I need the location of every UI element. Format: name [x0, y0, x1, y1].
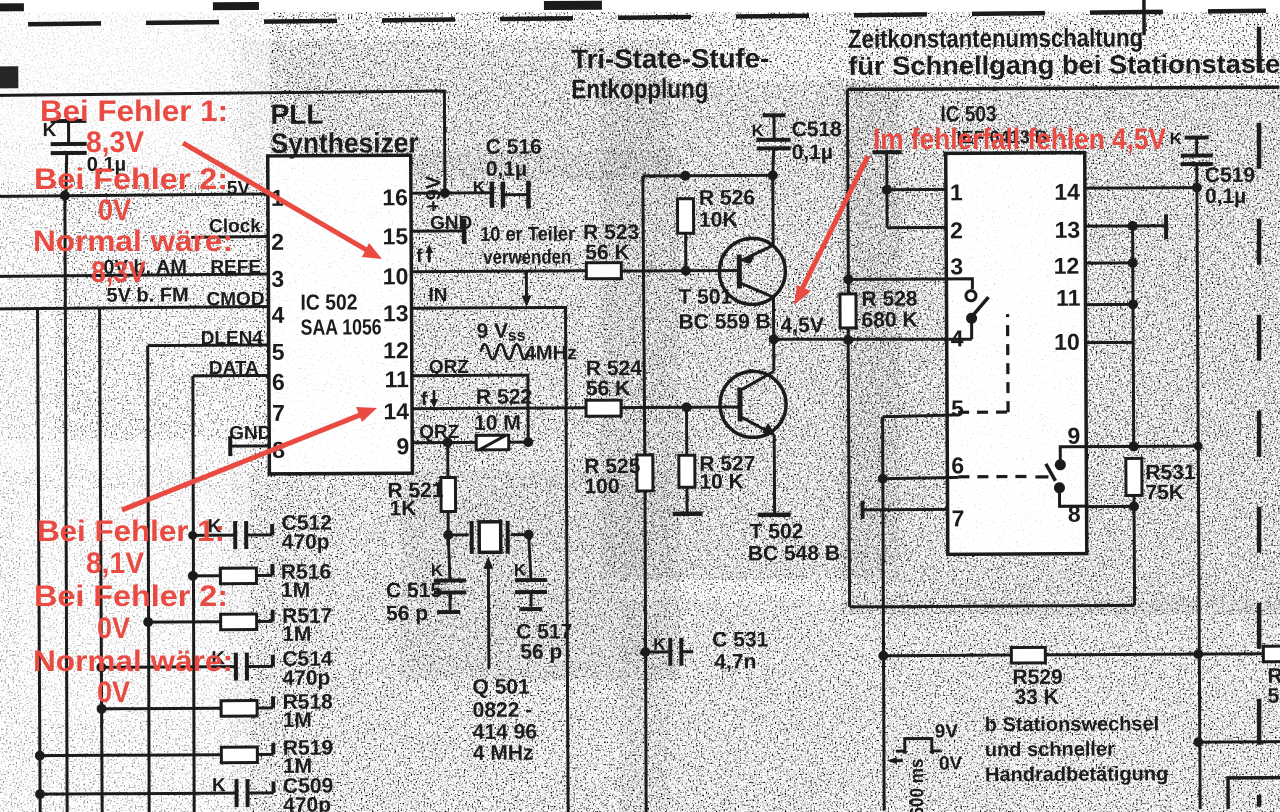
arrow Q501 pointer: [483, 557, 494, 669]
ladder row C509: [35, 779, 274, 808]
capacitor C516: [492, 181, 529, 209]
junction R522/pin11 column: [523, 437, 533, 447]
svg-text:C 531: C 531: [712, 628, 768, 651]
svg-text:BC 548 B: BC 548 B: [748, 542, 840, 565]
svg-text:Entkopplung: Entkopplung: [571, 74, 708, 105]
right dashed page border: [1255, 27, 1263, 807]
junction pin1: [882, 185, 892, 195]
junction pin6 column: [878, 474, 888, 484]
svg-text:10 K: 10 K: [699, 470, 743, 493]
svg-text:Handradbetätigung: Handradbetätigung: [985, 763, 1168, 786]
wire IC502 pin1 5V: [0, 194, 268, 196]
red arrow to pin10: [183, 143, 382, 259]
svg-text:1: 1: [950, 179, 963, 205]
switch contact moving (pin4): [966, 313, 977, 324]
svg-text:680 K: 680 K: [862, 309, 918, 332]
bus line 5: [192, 376, 195, 812]
wire IC502 pin3 REFE: [0, 274, 268, 276]
svg-text:8,1V: 8,1V: [86, 547, 144, 580]
capacitor C531: [645, 638, 693, 666]
IC503 pin numbers left: [950, 179, 965, 531]
section frame Zeitkonstanten top edge: [847, 87, 1279, 89]
IC503 body (white): [947, 155, 1086, 556]
resistor R528: [840, 294, 858, 607]
wire IC503 pin7: [863, 508, 948, 511]
wire +9V rail to C518: [643, 174, 773, 178]
svg-text:4,5V: 4,5V: [781, 314, 824, 337]
svg-text:IC 502: IC 502: [300, 289, 357, 314]
junction 5V bus2: [60, 190, 70, 200]
svg-text:f: f: [416, 246, 423, 267]
ladder row C514: [96, 652, 273, 681]
bus column pin5/pin6: [882, 417, 885, 811]
svg-text:1M: 1M: [281, 579, 310, 602]
ladder resistor R518: [97, 696, 274, 716]
svg-text:K: K: [514, 561, 527, 580]
switch S2 lever: [1046, 464, 1056, 481]
dashed linkage S2 to pin6: [958, 475, 1033, 479]
svg-text:9V: 9V: [935, 721, 959, 742]
resistor R526: [677, 199, 693, 271]
switch S2 lever tick: [1035, 475, 1048, 478]
svg-text:470p: 470p: [283, 794, 331, 812]
svg-text:12: 12: [383, 337, 409, 363]
svg-text:PLL: PLL: [270, 99, 323, 130]
dashed linkage S1 to pin5: [958, 314, 1009, 412]
junction pin13 tie: [1128, 221, 1138, 231]
bus line 1: [38, 309, 41, 812]
svg-text:Normal wäre:: Normal wäre:: [33, 645, 233, 678]
svg-text:1M: 1M: [282, 623, 311, 646]
arrow stub divider note: [521, 272, 531, 307]
svg-text:C518: C518: [792, 118, 843, 141]
tie column pins13-10-9: [1133, 226, 1134, 446]
svg-text:K: K: [212, 775, 226, 796]
wire R524 to T502 base: [621, 405, 740, 409]
capacitor C515: [434, 535, 466, 612]
svg-text:R 526: R 526: [699, 186, 755, 209]
wire bottom row: [1198, 740, 1280, 743]
svg-text:600 ms: 600 ms: [907, 758, 928, 812]
wire R523 to T501 base: [621, 269, 739, 273]
svg-text:11: 11: [384, 366, 409, 392]
red annotations layer: [33, 95, 1166, 709]
svg-text:0,1µ: 0,1µ: [1205, 185, 1246, 208]
junction pin9/R521: [443, 437, 453, 447]
svg-text:12: 12: [1054, 253, 1080, 279]
junction T501 base / R526: [681, 266, 691, 276]
svg-text:7: 7: [272, 400, 285, 426]
svg-text:56 p: 56 p: [520, 640, 562, 663]
svg-text:6: 6: [951, 452, 964, 478]
red arrow to 4,5V: [794, 156, 868, 305]
svg-text:8,3V: 8,3V: [86, 126, 144, 159]
wire IC502 pin6 DATA: [193, 374, 269, 377]
svg-text:Bei Fehler 1:: Bei Fehler 1:: [40, 95, 228, 128]
svg-text:9: 9: [396, 433, 409, 459]
svg-text:470p: 470p: [282, 531, 330, 554]
wire IC502 pin5 DLEN: [148, 343, 269, 347]
crystal Q501: [448, 521, 529, 554]
wire IC502 pin9 QRZ: [412, 441, 476, 444]
wire +9V top rail: [0, 91, 445, 195]
resistor R525 column: [635, 176, 654, 812]
svg-text:0V: 0V: [97, 612, 130, 645]
svg-text:10 er Teiler: 10 er Teiler: [480, 223, 575, 245]
svg-text:13: 13: [383, 300, 409, 326]
bus line 2: [64, 196, 68, 812]
junction C531: [640, 647, 650, 657]
title Tri-State: [571, 43, 769, 104]
pulse waveform symbol: [896, 738, 941, 753]
svg-text:Synthesizer: Synthesizer: [271, 127, 419, 159]
svg-text:DLEN4: DLEN4: [201, 328, 264, 349]
resistor R531: [1126, 458, 1142, 506]
svg-text:0V: 0V: [939, 753, 963, 774]
svg-text:8,3V: 8,3V: [91, 256, 146, 289]
resistor R524: [586, 400, 621, 416]
svg-text:Normal wäre:: Normal wäre:: [33, 225, 233, 258]
wire IC503 pin13: [1085, 224, 1166, 227]
resistor R523: [586, 263, 621, 279]
svg-text:K: K: [752, 121, 765, 140]
svg-text:ss: ss: [508, 328, 526, 345]
IC503 pin numbers right: [1053, 179, 1082, 527]
svg-text:K: K: [431, 561, 444, 580]
svg-text:13: 13: [1054, 217, 1080, 243]
svg-text:Bei Fehler 2:: Bei Fehler 2:: [34, 163, 228, 196]
svg-text:0,1µ: 0,1µ: [486, 158, 527, 181]
junction pin12 tie: [1128, 258, 1138, 268]
wire IC503 pin4 riser: [970, 320, 973, 339]
ground bar pin15: [462, 219, 467, 244]
vertical line top right (adjacent sheet): [1142, 0, 1146, 35]
wire IC502 pin14 f-down: [412, 406, 586, 410]
ladder resistor R516: [188, 564, 273, 584]
junction pin9 / C519 column: [1194, 442, 1203, 451]
junction R528 bottom / 4,5V: [843, 335, 853, 345]
svg-text:BC 559 B: BC 559 B: [679, 310, 771, 333]
svg-text:C 516: C 516: [486, 136, 542, 159]
svg-text:56 p: 56 p: [386, 602, 428, 625]
svg-text:2: 2: [950, 217, 963, 243]
title Zeitkonstanten: [848, 22, 1280, 81]
IC502 body (white): [269, 154, 412, 472]
svg-text:4: 4: [951, 325, 964, 351]
bus line 3: [100, 308, 103, 812]
svg-text:10K: 10K: [699, 208, 738, 231]
wire R529 row: [883, 654, 1011, 658]
svg-text:K: K: [1170, 129, 1183, 148]
svg-text:7: 7: [952, 505, 965, 531]
svg-text:14: 14: [1054, 179, 1080, 205]
svg-text:8: 8: [1068, 501, 1081, 527]
scan blob left edge: [0, 66, 18, 88]
wire IC503 pin6: [883, 477, 959, 478]
junction R531 top: [1129, 441, 1139, 451]
wire IC503 pin5: [883, 415, 959, 417]
svg-text:+9V: +9V: [423, 175, 445, 212]
svg-text:75K: 75K: [1145, 481, 1184, 504]
resistor R529: [1011, 647, 1045, 663]
page edge mark top-left: [0, 3, 24, 11]
capacitor C519: [1181, 137, 1213, 164]
IC502 pin numbers left: [271, 185, 285, 463]
wire IC502 pin2 Clock: [191, 235, 268, 239]
resistor R527: [672, 407, 703, 514]
IC502 pin numbers right: [382, 184, 409, 459]
capacitor top-left 0,1u: [51, 121, 87, 195]
svg-text:0V: 0V: [98, 194, 131, 227]
svg-text:Q 501: Q 501: [472, 676, 530, 699]
ladder resistor R519: [35, 743, 274, 764]
svg-text:0V: 0V: [97, 676, 130, 709]
junction +9V rail / pin16: [440, 188, 450, 198]
wire IC503 pin9 inside: [1060, 447, 1087, 460]
wire column to C517: [529, 535, 531, 580]
svg-text:für Schnellgang bei Stationsta: für Schnellgang bei Stationstaste: [848, 49, 1280, 81]
transistor T502: [720, 339, 791, 515]
switch S2 contact upper: [1055, 459, 1066, 470]
svg-text:4: 4: [271, 302, 284, 328]
ladder resistor R517: [143, 610, 273, 630]
wire IC503 pin12: [1085, 261, 1132, 264]
junction T502 base / R527: [682, 402, 692, 412]
svg-text:R 528: R 528: [861, 288, 917, 311]
svg-text:T 501: T 501: [678, 286, 732, 309]
bus column C519 net: [1197, 164, 1200, 809]
svg-text:5: 5: [272, 339, 285, 365]
junction R529 row left: [878, 651, 888, 661]
svg-text:6: 6: [272, 369, 285, 395]
junction R529 row / C519 column: [1193, 649, 1203, 659]
svg-text:C519: C519: [1205, 164, 1255, 187]
terminator bar pin13: [1164, 214, 1168, 239]
resistor R522 (adjustable): [476, 435, 509, 450]
section frame bottom edge: [850, 605, 1135, 606]
svg-text:10: 10: [383, 263, 409, 289]
red arrow to pin14: [122, 407, 377, 510]
svg-text:1M: 1M: [283, 709, 312, 732]
svg-text:f: f: [421, 389, 428, 410]
svg-text:K: K: [473, 178, 486, 197]
page edge mark top x546: [544, 1, 602, 10]
wire IC503 pin14: [1085, 186, 1197, 190]
wire pin8 net down to frame: [1133, 506, 1137, 605]
wire IC503 pin11: [1086, 303, 1133, 306]
svg-text:470p: 470p: [282, 667, 330, 690]
svg-text:56: 56: [1267, 685, 1280, 708]
wire IC502 pin4 CMOD: [0, 306, 269, 308]
svg-text:3: 3: [950, 253, 963, 279]
transistor T501: [719, 175, 786, 339]
junction crystal right: [524, 530, 534, 540]
wire IC502 pin15 GND: [411, 229, 464, 232]
wire IC502 pin8 GND: [230, 444, 269, 447]
wire R529 to R530: [1045, 654, 1263, 655]
resistor R521: [441, 442, 456, 535]
switch lever S1: [969, 297, 988, 319]
svg-text:GND: GND: [430, 213, 472, 234]
switch contact open (pin3): [966, 291, 976, 301]
svg-text:33 K: 33 K: [1015, 686, 1059, 709]
wire IC503 pin8 outside: [1087, 505, 1134, 508]
svg-text:2: 2: [271, 229, 284, 255]
junction R526 top: [680, 171, 690, 181]
svg-text:14: 14: [383, 398, 409, 424]
svg-text:56 K: 56 K: [586, 377, 630, 400]
junction crystal left: [443, 530, 453, 540]
wire IC503 pin10: [1086, 341, 1133, 344]
svg-text:K: K: [653, 635, 666, 654]
svg-text:100: 100: [584, 475, 619, 498]
section frame left edge / R528 column: [847, 89, 848, 293]
svg-text:IN: IN: [428, 285, 447, 306]
svg-text:4MHz: 4MHz: [525, 342, 577, 364]
svg-text:4,7n: 4,7n: [714, 650, 756, 673]
page edge mark top x215: [213, 2, 259, 10]
svg-text:15: 15: [382, 223, 408, 249]
bus line 4: [147, 346, 150, 812]
svg-text:5: 5: [951, 395, 964, 421]
svg-text:Bei Fehler 2:: Bei Fehler 2:: [34, 580, 228, 613]
svg-text:T 502: T 502: [750, 520, 804, 543]
component box bottom-right (cut): [1228, 778, 1280, 809]
svg-text:QRZ: QRZ: [429, 357, 470, 378]
wire IC503 pin3 (R528 top to switch): [848, 279, 972, 290]
svg-text:R 522: R 522: [476, 386, 532, 409]
svg-text:QRZ: QRZ: [419, 422, 460, 443]
junction R528 top / pin3: [843, 274, 853, 284]
svg-text:56 K: 56 K: [585, 241, 629, 264]
svg-text:DATA: DATA: [209, 358, 259, 379]
svg-text:Im fehlerfall fehlen 4,5V: Im fehlerfall fehlen 4,5V: [873, 123, 1166, 156]
svg-text:REFE: REFE: [210, 257, 261, 278]
svg-text:10 M: 10 M: [474, 412, 521, 435]
wire IC502 pin11 QRZ: [412, 375, 528, 443]
IC503 box: [946, 153, 1087, 555]
capacitor C518: [757, 115, 791, 175]
junction C518 bottom: [768, 170, 778, 180]
wire IC502 pin10 f-up: [411, 269, 586, 273]
resistor R530 (cut by page edge): [1263, 646, 1280, 662]
terminator bar pins1-2: [873, 152, 902, 228]
wire 4,5V to IC503 pin4: [774, 338, 972, 340]
svg-text:9: 9: [1067, 423, 1080, 449]
svg-text:und schneller: und schneller: [985, 739, 1115, 762]
label PLL Synthesizer: [270, 98, 418, 159]
junction R531 bottom / pin8: [1129, 501, 1139, 511]
svg-text:10: 10: [1054, 329, 1080, 355]
svg-text:Bei Fehler 1:: Bei Fehler 1:: [37, 515, 225, 548]
IC502 box: [268, 155, 413, 474]
svg-text:SAA 1056: SAA 1056: [301, 314, 382, 339]
svg-text:GND: GND: [229, 423, 271, 444]
svg-text:verwenden: verwenden: [483, 246, 571, 268]
junction pin11 tie: [1128, 299, 1138, 309]
wire R522 to column: [509, 441, 528, 444]
sine squiggle: [481, 344, 529, 359]
terminator bar pin7: [861, 501, 865, 519]
svg-text:9 V: 9 V: [477, 320, 509, 343]
svg-text:1K: 1K: [390, 497, 417, 520]
svg-text:11: 11: [1056, 285, 1081, 311]
svg-text:Tri-State-Stufe-: Tri-State-Stufe-: [571, 43, 769, 74]
wire IC503 pin8 inside: [1059, 490, 1087, 507]
svg-text:0,1µ: 0,1µ: [792, 141, 833, 164]
wire IC503 pin1: [887, 188, 946, 191]
svg-text:0822 -: 0822 -: [473, 699, 533, 722]
wire IC503 pin2: [887, 226, 946, 229]
arrow pulse timing: [887, 757, 903, 764]
junction C519: [1192, 183, 1202, 193]
wire IC502 pin13 IN column: [412, 307, 569, 812]
svg-text:4 MHz: 4 MHz: [473, 742, 534, 765]
ladder row C512: [188, 521, 272, 549]
wire IC502 pin16 +9V: [411, 191, 491, 194]
svg-text:C 515: C 515: [386, 579, 442, 602]
svg-text:b Stationswechsel: b Stationswechsel: [985, 713, 1160, 736]
svg-text:3: 3: [271, 266, 284, 292]
top dashed page border: [28, 11, 1266, 24]
junction bottom row / C519 column: [1193, 737, 1203, 747]
switch S2 contact lower: [1054, 482, 1065, 493]
wire IC503 pin9 outside: [1086, 445, 1198, 449]
ground bar IC502 pin8: [228, 436, 232, 456]
svg-text:16: 16: [382, 184, 408, 210]
capacitor C517: [515, 580, 547, 609]
svg-text:414 96: 414 96: [473, 721, 537, 744]
svg-text:CMOD: CMOD: [206, 289, 264, 310]
junction 4,5V node: [769, 334, 779, 344]
